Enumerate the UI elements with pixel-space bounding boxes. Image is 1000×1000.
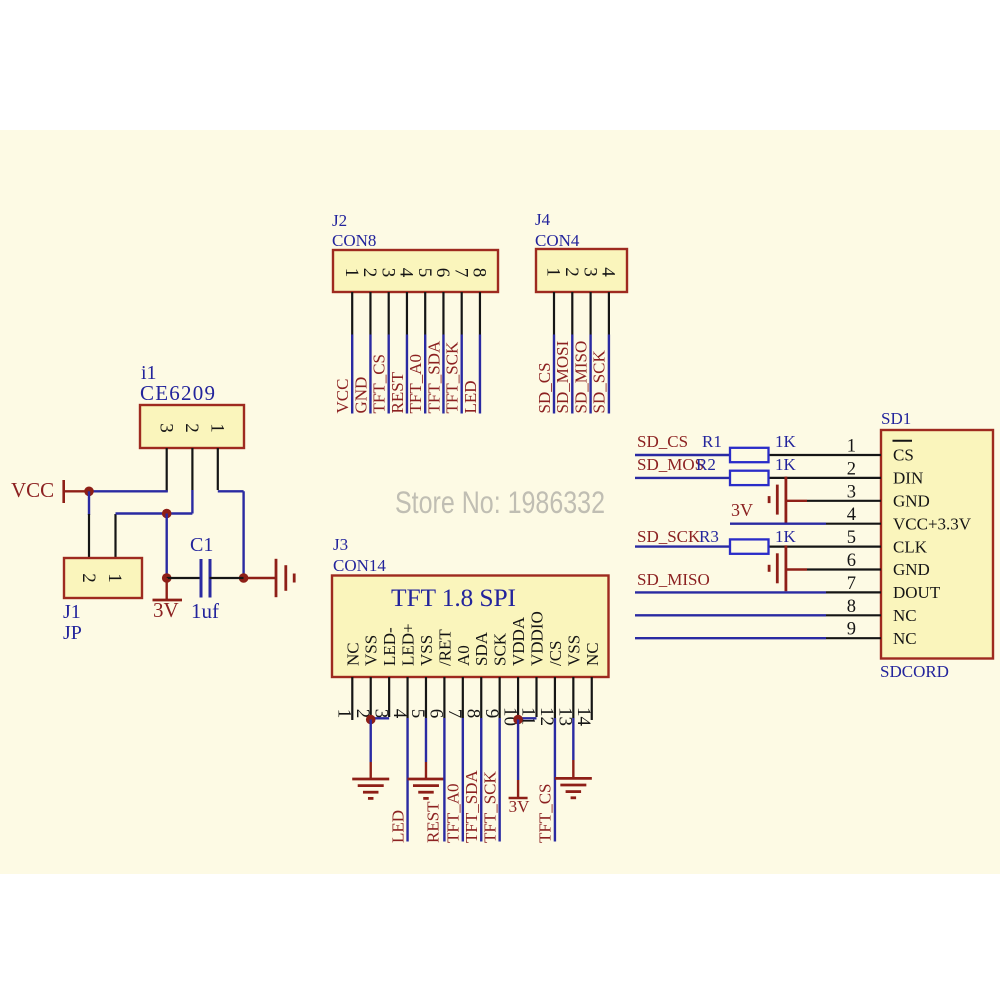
SD1 pin 4 line <box>826 523 881 525</box>
svg-text:J1: J1 <box>63 601 81 623</box>
wire J4 pin 3 net SD_MISO <box>589 335 591 414</box>
svg-text:SD_MOS: SD_MOS <box>637 455 704 474</box>
SD1 pin 9 line <box>826 637 881 639</box>
svg-text:NC: NC <box>893 606 917 625</box>
J2 pin 3 stub <box>388 292 390 335</box>
i1 pin 2 stub <box>191 448 193 490</box>
wire J3 pin9 net TFT_SCK <box>498 718 500 842</box>
svg-text:/CS: /CS <box>546 640 565 666</box>
svg-text:SDA: SDA <box>472 631 491 666</box>
junction J3 VDD pins 10-11 <box>513 715 523 725</box>
J2 pin 7 stub <box>461 292 463 335</box>
svg-text:VDDA: VDDA <box>509 616 528 666</box>
J4 pin 2 stub <box>571 292 573 335</box>
svg-text:TFT_CS: TFT_CS <box>370 354 389 414</box>
ground below J3 pin 5 <box>407 778 444 781</box>
ground below J3 pins 2-3 <box>352 778 389 781</box>
svg-text:1K: 1K <box>775 455 797 474</box>
wire VCC junction to i1 pin 3 <box>89 490 168 492</box>
junction VCC node <box>84 487 94 497</box>
SD1 pin 5 line <box>769 545 882 547</box>
power port 3V bar under J3 <box>509 797 528 800</box>
SD1 pin 8 line <box>826 614 881 616</box>
wire J4 pin 1 net SD_CS <box>553 335 555 414</box>
svg-text:6: 6 <box>847 551 856 571</box>
J2 pin 4 stub <box>406 292 408 335</box>
power port VCC bar <box>62 480 65 503</box>
wire J4 pin 2 net SD_MOSI <box>571 335 573 414</box>
connector J4 body <box>536 249 627 292</box>
svg-text:TFT 1.8 SPI: TFT 1.8 SPI <box>391 583 516 612</box>
wire J3 pin6 net REST <box>443 718 445 842</box>
svg-text:CON4: CON4 <box>535 231 580 250</box>
svg-text:4: 4 <box>847 505 856 525</box>
svg-text:4: 4 <box>396 268 417 278</box>
J3 pin 5 stub <box>425 677 427 718</box>
svg-text:SD_MISO: SD_MISO <box>637 570 710 589</box>
resistor R3 body <box>730 539 769 553</box>
svg-text:A0: A0 <box>454 645 473 666</box>
regulator U-i1 body CE6209 <box>140 405 244 448</box>
J3 pin 1 stub <box>351 677 353 720</box>
svg-text:VCC+3.3V: VCC+3.3V <box>893 514 972 533</box>
ground below J3 pin 13 <box>555 777 592 780</box>
svg-text:2: 2 <box>78 573 99 583</box>
svg-text:J3: J3 <box>333 535 348 554</box>
J4 pin 4 stub <box>608 292 610 335</box>
i1 pin 1 stub <box>217 448 219 490</box>
svg-text:VCC: VCC <box>11 478 54 502</box>
svg-text:SD_CS: SD_CS <box>637 432 688 451</box>
svg-text:3: 3 <box>377 268 398 278</box>
wire J2 pin 8 net LED <box>479 335 481 414</box>
svg-text:SD_CS: SD_CS <box>535 362 554 413</box>
wire 3V to SD1 pin4 <box>730 523 826 525</box>
svg-text:1K: 1K <box>775 432 797 451</box>
J3 pin 7 stub <box>462 677 464 718</box>
J3 pin 10 stub <box>517 677 519 718</box>
svg-text:GND: GND <box>893 560 930 579</box>
svg-text:SCK: SCK <box>491 632 510 666</box>
svg-text:1: 1 <box>207 423 228 433</box>
svg-text:3V: 3V <box>509 797 530 816</box>
svg-text:LED: LED <box>388 810 407 843</box>
wire J2 pin 7 net TFT_SCK <box>461 335 463 414</box>
svg-text:CS: CS <box>893 446 914 465</box>
wire J3 VSS red tail <box>370 762 372 779</box>
wire J2 pin 5 net TFT_A0 <box>424 335 426 414</box>
wire J3 pin12 net TFT_CS <box>554 718 556 842</box>
connector J1 body <box>64 558 142 598</box>
J3 pin 2 stub <box>370 677 372 718</box>
svg-text:R3: R3 <box>699 527 719 546</box>
wire SD1 pin9 NC <box>635 637 826 639</box>
svg-text:GND: GND <box>351 377 370 414</box>
svg-text:REST: REST <box>424 801 443 843</box>
wire net SD_CS to R1 <box>635 454 730 456</box>
svg-text:9: 9 <box>847 620 856 640</box>
svg-text:TFT_SDA: TFT_SDA <box>424 340 443 413</box>
wire VCC bar to junction <box>64 490 89 492</box>
sdcard SD1 body <box>881 430 993 659</box>
svg-text:2: 2 <box>561 267 582 277</box>
svg-text:TFT_SDA: TFT_SDA <box>462 770 481 843</box>
wire J2 pin 3 net TFT_CS <box>388 335 390 414</box>
wire J3 pin5 red tail <box>425 762 427 779</box>
J1 pin 2 stub <box>88 514 90 558</box>
svg-text:3V: 3V <box>153 598 179 622</box>
resistor R1 body <box>730 448 769 462</box>
svg-text:NC: NC <box>583 642 602 666</box>
J2 pin 8 stub <box>479 292 481 335</box>
svg-text:REST: REST <box>388 371 407 413</box>
svg-text:NC: NC <box>893 629 917 648</box>
svg-text:1K: 1K <box>775 527 797 546</box>
svg-text:LED: LED <box>461 380 480 413</box>
svg-text:R2: R2 <box>696 455 716 474</box>
J3 pin 9 stub <box>499 677 501 718</box>
wire VCC junction down to J1 pin 2 <box>88 491 90 515</box>
power port 3V stem <box>165 578 167 600</box>
SD1 pin 6 line <box>807 568 881 570</box>
i1 pin 3 stub <box>166 448 168 492</box>
wire 3V node vertical <box>165 514 167 579</box>
resistor R2 body <box>730 471 769 485</box>
wire J3 pin4 net LED <box>406 718 408 842</box>
wire J3 pin8 net TFT_SDA <box>480 718 482 842</box>
schematic sheet background <box>0 130 1000 874</box>
svg-text:SD_MISO: SD_MISO <box>571 341 590 414</box>
svg-text:VSS: VSS <box>564 635 583 666</box>
wire J2 pin 4 net REST <box>406 335 408 414</box>
svg-text:SD_MOSI: SD_MOSI <box>553 340 572 413</box>
svg-text:1: 1 <box>104 573 125 583</box>
svg-text:3: 3 <box>155 423 176 433</box>
wire C1 node to ground <box>244 577 276 579</box>
svg-text:7: 7 <box>450 268 471 278</box>
J4 pin 3 stub <box>589 292 591 335</box>
svg-text:J2: J2 <box>332 211 347 230</box>
svg-text:CLK: CLK <box>893 537 928 556</box>
svg-text:5: 5 <box>414 268 435 278</box>
svg-text:2: 2 <box>359 268 380 278</box>
svg-text:3V: 3V <box>731 500 753 520</box>
wire J3 pin13 down <box>572 718 574 760</box>
svg-text:VSS: VSS <box>362 635 381 666</box>
wire J2 pin 2 net GND <box>369 335 371 414</box>
J3 pin 3 stub <box>388 677 390 717</box>
svg-text:CE6209: CE6209 <box>140 381 215 405</box>
wire J3 pin13 red tail <box>572 760 574 778</box>
SD1 pin 7 line <box>826 591 881 593</box>
SD1 pin 1 line <box>769 454 882 456</box>
capacitor C1 right plate <box>209 559 212 598</box>
junction C1 left node <box>162 573 172 583</box>
wire SD1 pin3 ground tail <box>786 500 807 502</box>
svg-text:2: 2 <box>181 423 202 433</box>
junction C1 right node <box>239 573 249 583</box>
junction J3 VSS pins 2-3 <box>366 715 376 725</box>
wire J4 pin 4 net SD_SCK <box>608 335 610 414</box>
wire C1 right <box>210 577 244 579</box>
svg-text:CON8: CON8 <box>332 231 376 250</box>
junction 3V node upper <box>162 509 172 519</box>
svg-text:CON14: CON14 <box>333 556 386 575</box>
svg-text:4: 4 <box>598 267 619 277</box>
svg-text:TFT_A0: TFT_A0 <box>406 354 425 414</box>
J3 pin 4 stub <box>406 677 408 718</box>
wire J3 VSS down <box>370 720 372 763</box>
J2 pin 6 stub <box>442 292 444 335</box>
wire J3 pin5 down <box>425 718 427 762</box>
svg-text:3: 3 <box>847 482 856 502</box>
ground at SD1 pin 6 <box>785 545 788 591</box>
svg-text:LED-: LED- <box>380 627 399 666</box>
J2 pin 5 stub <box>424 292 426 335</box>
wire J2 pin 1 net VCC <box>351 335 353 414</box>
svg-text:JP: JP <box>63 622 82 644</box>
ground at SD1 pin 3 <box>785 477 788 523</box>
J2 pin 2 stub <box>369 292 371 335</box>
wire J3 pin11 to pin10 junction <box>518 717 536 719</box>
svg-text:TFT_CS: TFT_CS <box>536 783 555 843</box>
svg-text:GND: GND <box>893 492 930 511</box>
J1 pin 1 stub <box>114 514 116 558</box>
svg-text:R1: R1 <box>702 432 722 451</box>
wire net SD_MISO <box>635 591 826 593</box>
svg-text:J4: J4 <box>535 210 551 229</box>
svg-text:TFT_A0: TFT_A0 <box>444 784 463 844</box>
wire net SD_MOSI to R2 <box>635 477 730 479</box>
J3 pin 6 stub <box>443 677 445 718</box>
svg-text:1: 1 <box>847 437 856 457</box>
svg-text:1: 1 <box>341 268 362 278</box>
wire J3 pin7 net TFT_A0 <box>462 718 464 842</box>
svg-text:TFT_SCK: TFT_SCK <box>480 770 499 843</box>
wire i1 pin1 corner horizontal <box>218 490 244 492</box>
svg-text:SD_SCK: SD_SCK <box>637 527 701 546</box>
J3 pin 13 stub <box>572 677 574 718</box>
svg-text:1: 1 <box>543 267 564 277</box>
svg-text:1uf: 1uf <box>191 599 219 623</box>
connector J2 body <box>333 250 498 292</box>
svg-text:3: 3 <box>579 267 600 277</box>
svg-text:LED+: LED+ <box>399 623 418 666</box>
wire SD1 pin6 ground tail <box>786 568 807 570</box>
SD1 pin 2 line <box>769 477 882 479</box>
svg-text:8: 8 <box>469 268 490 278</box>
svg-text:2: 2 <box>847 459 856 479</box>
wire SD1 pin8 NC <box>635 614 826 616</box>
J3 pin 8 stub <box>480 677 482 718</box>
svg-text:C1: C1 <box>190 534 213 556</box>
capacitor C1 left plate <box>200 559 203 598</box>
svg-text:6: 6 <box>432 268 453 278</box>
J3 pin 11 stub <box>535 677 537 717</box>
svg-text:SD_SCK: SD_SCK <box>590 349 609 413</box>
svg-text:8: 8 <box>847 597 856 617</box>
svg-text:Store No: 1986332: Store No: 1986332 <box>395 484 605 520</box>
wire net SD_SCK to R3 <box>635 545 730 547</box>
J2 pin 1 stub <box>351 292 353 335</box>
svg-text:DOUT: DOUT <box>893 583 941 602</box>
svg-text:DIN: DIN <box>893 469 923 488</box>
svg-text:NC: NC <box>343 642 362 666</box>
wire i1 pin 2 down <box>191 490 193 514</box>
power port 3V bar <box>153 599 183 602</box>
wire J2 pin 6 net TFT_SDA <box>442 335 444 414</box>
wire C1 left <box>167 577 201 579</box>
svg-text:VSS: VSS <box>417 635 436 666</box>
wire J1 pin 1 to i1 pin 2 <box>116 512 193 514</box>
svg-text:VDDIO: VDDIO <box>528 611 547 666</box>
svg-text:5: 5 <box>847 528 856 548</box>
ground right of C1 <box>275 559 278 597</box>
SD1 CS overline <box>893 440 913 442</box>
J4 pin 1 stub <box>553 292 555 335</box>
J3 pin 14 stub <box>591 677 593 720</box>
svg-text:SDCORD: SDCORD <box>880 662 949 681</box>
SD1 pin 3 line <box>807 500 881 502</box>
svg-text:TFT_SCK: TFT_SCK <box>443 341 462 414</box>
wire J3 pin3 to pin2 junction <box>371 717 389 719</box>
connector J3 body TFT 1.8 SPI <box>332 576 609 678</box>
svg-text:/RET: /RET <box>435 629 454 666</box>
wire J3 VDD down <box>517 720 519 781</box>
wire i1 pin1 corner vertical <box>242 491 244 578</box>
J3 pin 12 stub <box>554 677 556 718</box>
svg-text:7: 7 <box>847 574 856 594</box>
svg-text:SD1: SD1 <box>881 409 911 428</box>
power port 3V stem under J3 <box>517 780 519 798</box>
svg-text:VCC: VCC <box>333 379 352 414</box>
